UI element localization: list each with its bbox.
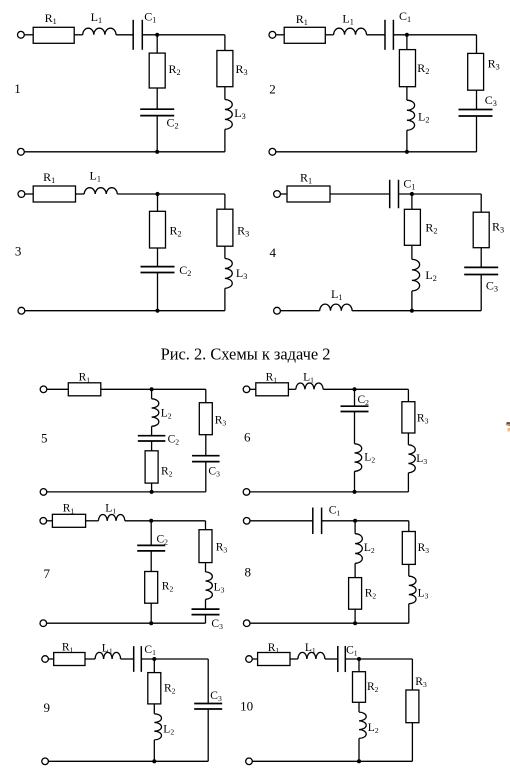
node A junction dot (circuit 2) — [405, 33, 409, 37]
resistor R3 (circuit 8) — [402, 532, 415, 565]
label C1 (circuit 8) — [329, 505, 341, 518]
label R2 (circuit 2) — [417, 61, 429, 76]
wire R2 to C2 (circuit 3) — [157, 248, 159, 267]
resistor R3 (circuit 2) — [468, 53, 484, 90]
wire top to R3 (circuit 6) — [407, 389, 409, 401]
wire terminal to C1 (circuit 8) — [250, 520, 313, 522]
svg-text:10: 10 — [240, 698, 253, 713]
wire L1 to C1 (circuit 9) — [121, 658, 134, 660]
capacitor C2 (circuit 7) — [137, 545, 165, 551]
svg-text:1: 1 — [14, 81, 20, 96]
wire R2 to C2 (circuit 1) — [156, 88, 158, 109]
label C2 (circuit 6) — [358, 394, 370, 407]
bottom return wire (circuit 8) — [250, 622, 409, 624]
wire R1 to node A (circuit 5) — [101, 388, 206, 390]
label L1 (circuit 7) — [105, 503, 116, 516]
bottom return wire (circuit 7) — [47, 622, 206, 624]
terminal input bottom (circuit 3) — [18, 307, 25, 314]
wire C1 to node A (circuit 2) — [393, 34, 476, 36]
label C1 (circuit 4) — [403, 176, 415, 191]
wire C1 to node A (circuit 4) — [399, 193, 482, 195]
inductor L1 (circuit 2) — [334, 28, 367, 35]
label R2 (circuit 7) — [162, 581, 174, 594]
label C2 (circuit 3) — [179, 263, 191, 278]
svg-text:7: 7 — [44, 566, 51, 581]
node B junction dot bottom (circuit 6) — [353, 490, 357, 494]
terminal input top (circuit 4) — [274, 191, 281, 198]
wire L3 to bottom (circuit 6) — [407, 473, 409, 492]
wire top to R3 (circuit 1) — [224, 35, 226, 51]
capacitor C1 (circuit 8) — [313, 508, 322, 535]
capacitor C1 (circuit 10) — [338, 646, 346, 672]
wire C2 to R2 (circuit 7) — [150, 551, 152, 572]
circuit number 8 — [245, 565, 252, 580]
wire top to R3 (circuit 3) — [224, 194, 226, 209]
label L2 (circuit 2) — [418, 110, 429, 125]
wire top to R3 (circuit 2) — [476, 35, 478, 54]
circuit number 3 — [15, 244, 22, 259]
label R3 (circuit 5) — [215, 414, 227, 427]
wire R3 to L3 (circuit 7) — [205, 563, 207, 572]
wire terminal to R1 (circuit 4) — [280, 193, 287, 195]
wire R1 to L1 (circuit 6) — [288, 388, 295, 390]
wire terminal to R1 (circuit 9) — [48, 658, 53, 660]
wire L3 to C3 (circuit 7) — [205, 599, 207, 609]
label R3 (circuit 4) — [492, 220, 504, 235]
capacitor C1 (circuit 4) — [390, 180, 399, 209]
wire R3 to C3 (circuit 5) — [205, 435, 207, 456]
circuit number 10 — [240, 698, 253, 713]
wire C3 to bottom (circuit 2) — [476, 116, 478, 152]
svg-text:2: 2 — [269, 81, 276, 96]
wire node A to L2 (circuit 5) — [151, 389, 153, 399]
circuit number 6 — [244, 430, 251, 445]
wire R2 to bottom (circuit 7) — [150, 603, 152, 623]
wire C3 to bottom (circuit 7) — [205, 615, 207, 624]
inductor L3 (circuit 8) — [409, 576, 416, 604]
svg-text:Рис. 2. Схемы к задаче 2: Рис. 2. Схемы к задаче 2 — [161, 345, 331, 364]
capacitor C3 (circuit 9) — [194, 704, 222, 710]
label R3 (circuit 10) — [415, 676, 427, 689]
label C1 (circuit 10) — [346, 644, 358, 657]
capacitor C2 (circuit 1) — [140, 109, 174, 115]
bottom return wire (circuit 5) — [47, 491, 206, 493]
wire bottom terminal to L1 (circuit 4) — [280, 310, 319, 312]
wire terminal to R1 (circuit 6) — [250, 388, 256, 390]
label L1 (circuit 4) — [331, 287, 342, 302]
inductor L2 (circuit 9) — [154, 714, 161, 740]
wire node A to R2 (circuit 1) — [156, 35, 158, 53]
inductor L1 (circuit 3) — [84, 188, 117, 194]
inductor L2 (circuit 2) — [407, 100, 415, 130]
label R1 (circuit 1) — [45, 11, 57, 26]
resistor R2 (circuit 1) — [149, 53, 165, 88]
label C2 (circuit 7) — [157, 534, 169, 547]
node A junction dot (circuit 3) — [155, 192, 159, 196]
label L2 (circuit 5) — [161, 408, 172, 421]
terminal input bottom (circuit 8) — [243, 620, 250, 627]
label L3 (circuit 3) — [236, 266, 247, 281]
wire R1 to C1 (circuit 4) — [330, 193, 390, 195]
wire C2 to R2 (circuit 5) — [151, 441, 153, 451]
resistor R2 (circuit 7) — [145, 572, 158, 604]
wire C3 to bottom (circuit 9) — [207, 709, 209, 761]
capacitor C3 (circuit 4) — [464, 267, 498, 274]
label C3 (circuit 2) — [485, 93, 497, 108]
terminal input bottom (circuit 4) — [274, 307, 281, 314]
wire C3 to bottom (circuit 4) — [480, 275, 482, 311]
node A junction dot (circuit 10) — [357, 657, 361, 661]
wire R1 to L1 (circuit 3) — [76, 193, 85, 195]
page-edge artifact mark — [506, 422, 510, 431]
wire L3 to bottom (circuit 8) — [408, 604, 410, 624]
wire L2 to bottom (circuit 2) — [406, 130, 408, 152]
resistor R3 (circuit 5) — [199, 403, 212, 435]
label L2 (circuit 8) — [364, 542, 375, 555]
label C1 (circuit 1) — [144, 9, 156, 24]
wire L2 to bottom (circuit 9) — [153, 740, 155, 761]
resistor R3 (circuit 7) — [199, 530, 212, 563]
node B junction dot bottom (circuit 2) — [405, 150, 409, 154]
wire R3 to L3 (circuit 6) — [407, 433, 409, 445]
wire top to R3 (circuit 7) — [205, 521, 207, 530]
wire R2 to L2 (circuit 9) — [153, 704, 155, 714]
label R2 (circuit 4) — [425, 220, 437, 235]
wire R2 to bottom (circuit 8) — [354, 609, 356, 623]
label L1 (circuit 2) — [342, 11, 353, 26]
label L1 (circuit 10) — [305, 642, 316, 655]
wire L1 to C1 (circuit 10) — [325, 658, 338, 660]
wire L2 to C2 (circuit 5) — [151, 426, 153, 435]
label L3 (circuit 6) — [416, 453, 427, 466]
terminal input bottom (circuit 2) — [269, 148, 276, 155]
circuit number 5 — [41, 431, 48, 446]
circuit number 7 — [44, 566, 51, 581]
wire L1 to node A (circuit 6) — [323, 388, 408, 390]
wire top to R3 (circuit 5) — [205, 389, 207, 402]
svg-text:5: 5 — [41, 431, 48, 446]
wire R2 to L2 (circuit 10) — [358, 702, 360, 712]
resistor R2 (circuit 5) — [145, 451, 158, 483]
wire top to R3 (circuit 4) — [480, 194, 482, 212]
label L1 (circuit 3) — [90, 168, 101, 183]
wire terminal to R1 (circuit 10) — [252, 658, 257, 660]
wire R1 to L1 (circuit 10) — [290, 658, 298, 660]
wire C1 to node A (circuit 10) — [345, 658, 412, 660]
wire L2 to bottom (circuit 6) — [354, 471, 356, 492]
terminal input top (circuit 5) — [40, 386, 47, 393]
wire L2 to bottom node (circuit 4) — [411, 291, 413, 311]
label R1 (circuit 7) — [63, 503, 75, 516]
resistor R1 (circuit 10) — [258, 653, 290, 666]
bottom return wire (circuit 1) — [24, 151, 225, 153]
resistor R3 (circuit 6) — [402, 402, 415, 433]
label R1 (circuit 2) — [296, 12, 308, 27]
terminal input bottom (circuit 9) — [42, 758, 49, 765]
bottom return wire (circuit 2) — [276, 151, 477, 153]
node B junction dot bottom (circuit 5) — [150, 490, 154, 494]
node B junction dot bottom (circuit 7) — [149, 621, 153, 625]
terminal input top (circuit 9) — [42, 656, 49, 663]
label C3 (circuit 5) — [208, 465, 220, 478]
resistor R1 (circuit 5) — [68, 383, 101, 396]
resistor R2 (circuit 10) — [353, 672, 366, 703]
resistor R1 (circuit 1) — [33, 27, 74, 43]
terminal input top (circuit 3) — [18, 191, 25, 198]
label R3 (circuit 6) — [417, 412, 429, 425]
label C1 (circuit 9) — [144, 644, 156, 657]
wire C1 to node A (circuit 8) — [322, 520, 409, 522]
inductor L2 (circuit 5) — [152, 399, 159, 427]
node A junction dot (circuit 8) — [353, 519, 357, 523]
wire terminal to R1 (circuit 5) — [47, 388, 69, 390]
inductor L3 (circuit 1) — [225, 100, 232, 130]
inductor L3 (circuit 3) — [225, 259, 232, 289]
label R2 (circuit 10) — [367, 681, 379, 694]
wire node A to L2 (circuit 8) — [354, 521, 356, 534]
wire L1 to bottom node (circuit 4) — [352, 310, 481, 312]
label L1 (circuit 9) — [102, 642, 113, 655]
label C2 (circuit 5) — [168, 434, 180, 447]
terminal input bottom (circuit 5) — [40, 489, 47, 496]
inductor L1 (circuit 9) — [95, 652, 121, 659]
caption Fig. 2 — [161, 345, 331, 364]
circuit number 4 — [270, 245, 277, 260]
inductor L1 (circuit 6) — [296, 383, 323, 389]
label R1 (circuit 10) — [268, 642, 280, 655]
label C1 (circuit 2) — [399, 9, 411, 24]
wire L2 to bottom (circuit 10) — [358, 738, 360, 761]
inductor L2 (circuit 4) — [412, 259, 420, 291]
wire R3 to L3 (circuit 3) — [224, 246, 226, 258]
label C3 (circuit 4) — [486, 278, 498, 293]
resistor R1 (circuit 3) — [33, 186, 75, 202]
node A junction dot (circuit 5) — [150, 387, 154, 391]
inductor L3 (circuit 7) — [206, 572, 213, 599]
wire R3 to bottom (circuit 10) — [411, 723, 413, 762]
inductor L2 (circuit 6) — [355, 444, 362, 472]
label L2 (circuit 6) — [364, 452, 375, 465]
svg-text:3: 3 — [15, 244, 22, 259]
terminal input top (circuit 1) — [18, 31, 25, 38]
terminal input bottom (circuit 1) — [18, 148, 25, 155]
capacitor C3 (circuit 7) — [192, 609, 220, 615]
label R1 (circuit 9) — [62, 641, 74, 654]
terminal input bottom (circuit 10) — [246, 758, 253, 765]
terminal input bottom (circuit 7) — [40, 620, 47, 627]
svg-text:6: 6 — [244, 430, 251, 445]
wire L1 to node A (circuit 7) — [125, 520, 206, 522]
wire node A to R2 (circuit 2) — [406, 35, 408, 50]
resistor R2 (circuit 2) — [399, 50, 415, 87]
capacitor C1 (circuit 1) — [133, 20, 142, 50]
label R3 (circuit 8) — [418, 542, 430, 555]
wire terminal to R1 (circuit 1) — [24, 34, 33, 36]
wire node A to R2 (circuit 3) — [157, 194, 159, 211]
node B junction dot bottom (circuit 1) — [155, 150, 159, 154]
bottom return wire (circuit 9) — [48, 760, 208, 762]
wire node A to C2 (circuit 6) — [354, 389, 356, 406]
resistor R2 (circuit 9) — [148, 673, 161, 704]
label L3 (circuit 8) — [418, 588, 429, 601]
wire R3 to L3 (circuit 8) — [408, 564, 410, 576]
circuit number 2 — [269, 81, 276, 96]
terminal input top (circuit 6) — [243, 386, 250, 393]
label R1 (circuit 3) — [43, 170, 55, 185]
node A junction dot (circuit 6) — [353, 387, 357, 391]
capacitor C1 (circuit 2) — [385, 20, 393, 50]
inductor L1 (circuit 4) — [320, 304, 352, 311]
capacitor C3 (circuit 2) — [459, 110, 493, 117]
circuit number 1 — [14, 81, 20, 96]
terminal input top (circuit 7) — [40, 518, 47, 525]
wire C1 to node A (circuit 1) — [142, 34, 225, 36]
wire R2 to L2 (circuit 4) — [411, 245, 413, 259]
label L1 (circuit 6) — [303, 371, 314, 384]
wire L3 to bottom (circuit 1) — [224, 129, 226, 152]
terminal input top (circuit 8) — [243, 518, 250, 525]
terminal input top (circuit 2) — [269, 31, 276, 38]
node B junction dot bottom (circuit 4) — [410, 309, 414, 313]
resistor R3 (circuit 10) — [406, 690, 419, 723]
label R2 (circuit 9) — [164, 683, 176, 696]
capacitor C2 (circuit 5) — [138, 436, 166, 441]
wire R1 to L1 (circuit 2) — [325, 34, 333, 36]
wire R3 to C3 (circuit 4) — [480, 248, 482, 268]
inductor L1 (circuit 7) — [98, 515, 124, 521]
resistor R2 (circuit 3) — [150, 211, 166, 248]
wire node A to R2 (circuit 9) — [153, 659, 155, 673]
label R2 (circuit 5) — [161, 465, 173, 478]
wire L2 to R2 (circuit 8) — [354, 563, 356, 577]
wire C2 to bottom (circuit 1) — [156, 116, 158, 152]
resistor R2 (circuit 8) — [349, 578, 362, 610]
svg-text:9: 9 — [44, 700, 51, 715]
wire node A to R2 (circuit 10) — [358, 659, 360, 672]
label L2 (circuit 9) — [163, 723, 174, 736]
wire R1 to L1 (circuit 1) — [74, 34, 83, 36]
label C2 (circuit 1) — [167, 116, 179, 131]
node A junction dot (circuit 4) — [410, 192, 414, 196]
label R3 (circuit 1) — [236, 62, 248, 77]
label R2 (circuit 1) — [169, 62, 181, 77]
label R2 (circuit 3) — [170, 224, 182, 239]
bottom return wire (circuit 6) — [250, 491, 409, 493]
wire L1 to node A (circuit 3) — [117, 193, 225, 195]
label L2 (circuit 4) — [425, 268, 436, 283]
inductor L3 (circuit 6) — [408, 445, 415, 473]
label L3 (circuit 1) — [234, 106, 245, 121]
wire C2 to bottom (circuit 3) — [157, 273, 159, 311]
inductor L2 (circuit 8) — [355, 534, 362, 564]
wire terminal to R1 (circuit 3) — [25, 193, 33, 195]
resistor R1 (circuit 4) — [287, 186, 330, 202]
wire C2 to L2 (circuit 6) — [354, 412, 356, 444]
wire R2 to L2 (circuit 2) — [406, 87, 408, 101]
label R3 (circuit 7) — [216, 541, 228, 554]
svg-text:8: 8 — [245, 565, 252, 580]
capacitor C1 (circuit 9) — [134, 646, 142, 672]
node B junction dot bottom (circuit 10) — [357, 759, 361, 763]
wire C3 to bottom (circuit 5) — [205, 462, 207, 492]
resistor R3 (circuit 4) — [473, 212, 489, 248]
bottom return wire (circuit 10) — [252, 760, 412, 762]
wire L1 to C1 (circuit 1) — [116, 34, 133, 36]
resistor R2 (circuit 4) — [404, 209, 420, 245]
wire top to R3 (circuit 8) — [408, 521, 410, 532]
capacitor C2 (circuit 6) — [341, 406, 369, 411]
wire R1 to L1 (circuit 9) — [85, 658, 95, 660]
label R3 (circuit 3) — [237, 224, 249, 239]
wire R3 to L3 (circuit 1) — [224, 87, 226, 100]
wire node A to R2 (circuit 4) — [411, 194, 413, 209]
node B junction dot bottom (circuit 9) — [152, 759, 156, 763]
wire R1 to L1 (circuit 7) — [86, 520, 99, 522]
wire L3 to bottom (circuit 3) — [224, 288, 226, 310]
wire R2 to bottom (circuit 5) — [151, 483, 153, 492]
inductor L2 (circuit 10) — [359, 712, 366, 738]
wire R3 to C3 (circuit 2) — [476, 90, 478, 109]
label R1 (circuit 4) — [300, 171, 312, 186]
label C3 (circuit 7) — [211, 618, 223, 631]
terminal input bottom (circuit 6) — [243, 489, 250, 496]
capacitor C2 (circuit 3) — [141, 267, 175, 273]
inductor L1 (circuit 1) — [83, 28, 116, 35]
node A junction dot (circuit 7) — [149, 519, 153, 523]
node B junction dot bottom (circuit 8) — [353, 621, 357, 625]
label C3 (circuit 9) — [210, 690, 222, 703]
node A junction dot (circuit 9) — [152, 657, 156, 661]
wire terminal to R1 (circuit 2) — [276, 34, 284, 36]
inductor L1 (circuit 10) — [298, 652, 325, 659]
wire terminal to R1 (circuit 7) — [47, 520, 53, 522]
resistor R1 (circuit 6) — [256, 383, 289, 396]
circuit number 9 — [44, 700, 51, 715]
label R1 (circuit 6) — [266, 371, 278, 384]
wire top to R3 (circuit 10) — [411, 659, 413, 690]
node B junction dot bottom (circuit 3) — [155, 309, 159, 313]
resistor R3 (circuit 3) — [217, 209, 233, 246]
wire C1 to node A (circuit 9) — [141, 658, 208, 660]
resistor R1 (circuit 2) — [284, 27, 325, 43]
wire L1 to C1 (circuit 2) — [367, 34, 386, 36]
wire top to C3 (circuit 9) — [207, 659, 209, 704]
svg-text:4: 4 — [270, 245, 277, 260]
capacitor C3 (circuit 5) — [192, 456, 220, 462]
label L3 (circuit 7) — [214, 582, 225, 595]
terminal input top (circuit 10) — [246, 656, 253, 663]
label L1 (circuit 1) — [91, 10, 102, 25]
wire node A to C2 (circuit 7) — [150, 521, 152, 546]
node A junction dot (circuit 1) — [155, 33, 159, 37]
label R3 (circuit 2) — [488, 57, 500, 72]
label L2 (circuit 10) — [368, 722, 379, 735]
resistor R1 (circuit 9) — [54, 653, 85, 666]
label R2 (circuit 8) — [365, 588, 377, 601]
label R1 (circuit 5) — [79, 371, 91, 384]
resistor R3 (circuit 1) — [217, 51, 233, 87]
bottom return wire (circuit 3) — [25, 310, 225, 312]
resistor R1 (circuit 7) — [52, 514, 85, 527]
